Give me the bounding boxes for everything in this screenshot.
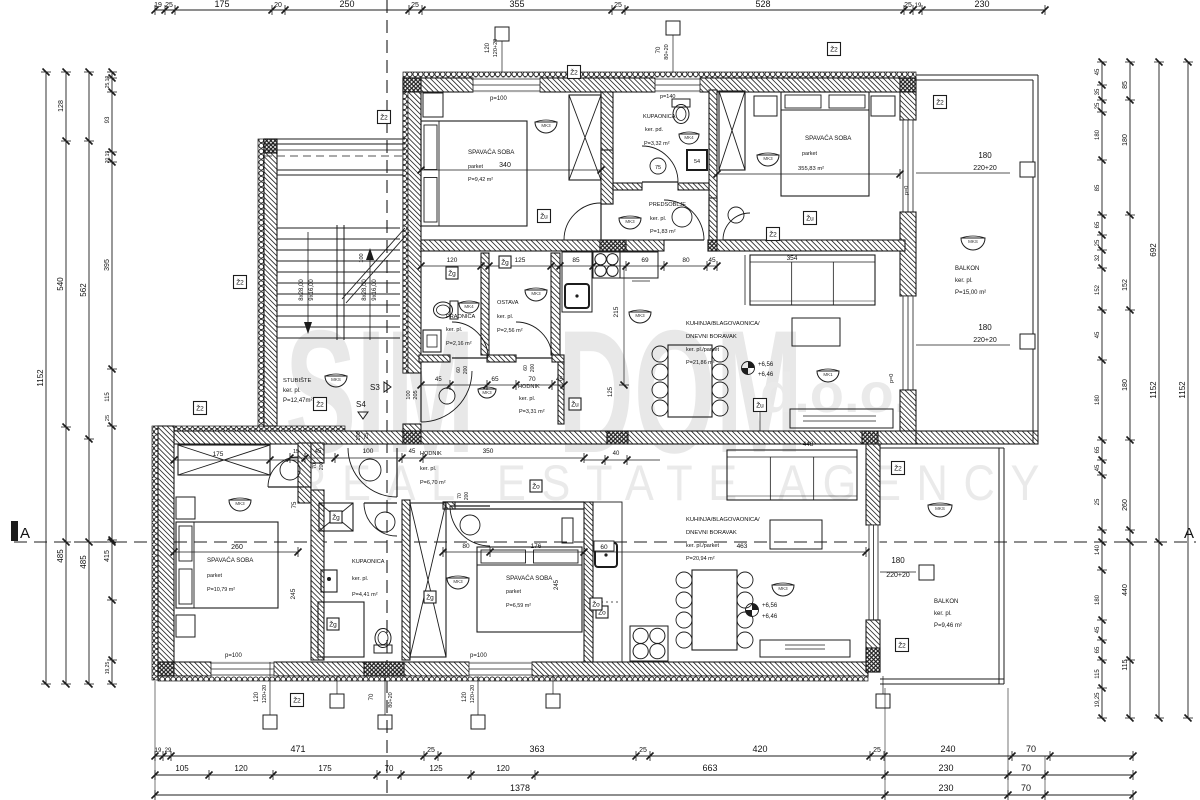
svg-text:180: 180	[891, 556, 905, 565]
svg-text:+6,46: +6,46	[762, 614, 778, 620]
svg-text:45: 45	[1095, 464, 1101, 471]
svg-text:175: 175	[318, 764, 332, 773]
bedroom2 lower: door arc	[450, 506, 490, 546]
svg-text:230: 230	[938, 763, 953, 773]
svg-text:MKS: MKS	[331, 377, 341, 382]
laundry: sink	[459, 303, 479, 313]
svg-text:MK3: MK3	[635, 313, 645, 318]
svg-text:40: 40	[613, 451, 620, 457]
svg-text:120: 120	[485, 42, 491, 53]
dim 40 living lower	[584, 459, 660, 461]
balcony 1 outline	[916, 74, 1038, 76]
boxed label stair west wall	[234, 276, 247, 289]
svg-text:P=20,94 m²: P=20,94 m²	[686, 556, 715, 562]
svg-text:P=10,79 m²: P=10,79 m²	[207, 587, 235, 593]
interior dim 215 vertical	[623, 266, 625, 385]
svg-text:45: 45	[435, 377, 442, 383]
wall: upper unit east	[900, 92, 916, 120]
svg-text:parket: parket	[468, 164, 483, 170]
ostava door arc	[516, 322, 552, 358]
svg-text:45: 45	[556, 377, 563, 383]
bottom marker 3 (door)	[378, 715, 392, 729]
svg-text:180: 180	[1095, 594, 1101, 605]
svg-text:120: 120	[234, 764, 248, 773]
boxed labels lower unit	[590, 598, 602, 610]
ceiling symbol hodnik	[478, 389, 496, 398]
svg-text:115: 115	[1095, 669, 1101, 679]
living room upper: sofa	[750, 255, 875, 305]
svg-text:p=100: p=100	[225, 653, 243, 659]
svg-text:ker. pl.: ker. pl.	[934, 611, 952, 617]
svg-text:45: 45	[708, 257, 716, 264]
bedroom1 dim 260	[174, 551, 298, 553]
bath door arc lower	[364, 503, 397, 536]
laundry room: washer	[423, 330, 441, 352]
svg-text:80+20: 80+20	[664, 44, 670, 59]
svg-text:152: 152	[1122, 279, 1129, 291]
boxed label stair	[314, 398, 327, 411]
svg-text:363: 363	[529, 744, 544, 754]
svg-text:45: 45	[1095, 331, 1101, 338]
svg-text:SPAVAĆA SOBA: SPAVAĆA SOBA	[506, 575, 553, 582]
svg-text:Ž2: Ž2	[293, 696, 301, 705]
outer wall: upper unit top	[403, 72, 916, 78]
svg-text:420: 420	[752, 744, 767, 754]
svg-text:60: 60	[523, 365, 529, 371]
svg-text:245: 245	[290, 588, 297, 599]
svg-text:P=9,46 m²: P=9,46 m²	[934, 623, 962, 629]
bottom marker 5	[546, 694, 560, 708]
svg-text:Ž2: Ž2	[769, 230, 777, 239]
svg-text:P=9,42 m²: P=9,42 m²	[468, 177, 493, 183]
bathroom upper: sink	[679, 134, 699, 144]
svg-text:SPAVAĆA SOBA: SPAVAĆA SOBA	[207, 557, 254, 564]
wall: upper unit west (to stairwell)	[403, 92, 421, 373]
svg-text:230: 230	[938, 783, 953, 793]
stair treads	[277, 227, 400, 229]
svg-text:P=21,86 m²: P=21,86 m²	[686, 360, 715, 366]
svg-text:45: 45	[315, 449, 322, 455]
bathroom upper: toilet	[672, 99, 690, 124]
svg-text:ker. pl.: ker. pl.	[497, 314, 514, 320]
svg-text:125: 125	[515, 257, 526, 264]
bottom extension lines	[154, 681, 156, 798]
svg-text:25: 25	[1095, 498, 1101, 505]
svg-text:75: 75	[292, 501, 298, 508]
svg-text:85: 85	[1122, 81, 1129, 89]
svg-text:415: 415	[104, 550, 111, 562]
interior dim chain lower y=458	[290, 457, 584, 459]
svg-text:100: 100	[406, 390, 412, 399]
bath lower: shower box	[319, 503, 353, 531]
svg-text:355: 355	[509, 0, 524, 9]
svg-text:Žg: Žg	[426, 593, 434, 602]
svg-text:p=0: p=0	[904, 186, 910, 195]
svg-text:P=15,00 m²: P=15,00 m²	[955, 290, 986, 296]
svg-text:70: 70	[1026, 744, 1036, 754]
bottom dimension chains	[155, 755, 1133, 757]
svg-text:35: 35	[1095, 88, 1101, 95]
svg-text:448: 448	[803, 441, 814, 448]
svg-text:692: 692	[1149, 243, 1158, 257]
outer wall: lower unit west	[152, 426, 158, 680]
svg-text:340: 340	[499, 162, 511, 169]
svg-text:MK3: MK3	[625, 219, 635, 224]
svg-text:Žg: Žg	[448, 269, 456, 278]
svg-text:Ž2: Ž2	[936, 98, 944, 107]
window E1 east	[902, 120, 915, 212]
svg-text:Ž2: Ž2	[894, 464, 902, 473]
window bottom bedroom2	[469, 662, 532, 677]
living lower: coffee table	[770, 520, 822, 549]
svg-text:200: 200	[530, 364, 536, 373]
svg-text:25: 25	[364, 433, 370, 439]
svg-text:P=6,59 m²: P=6,59 m²	[506, 603, 531, 609]
svg-text:100: 100	[356, 431, 362, 440]
stair break diagonal	[342, 228, 405, 299]
svg-text:120: 120	[496, 764, 510, 773]
bottom marker 2	[330, 694, 344, 708]
wardrobe lower center	[410, 503, 446, 657]
svg-text:20: 20	[274, 2, 282, 9]
interior wall: hodnik/kitchen vertical	[558, 362, 564, 424]
boxed labels balcony2	[892, 462, 905, 475]
door arcs at living room entry	[664, 200, 704, 240]
svg-text:8x28,00: 8x28,00	[362, 279, 368, 301]
stair direction arrow right	[369, 252, 371, 340]
svg-text:45: 45	[409, 449, 416, 455]
svg-text:45: 45	[1095, 68, 1101, 75]
living lower: dining table	[692, 570, 737, 650]
svg-text:85: 85	[572, 257, 580, 264]
wall: upper unit west below entry door	[403, 424, 421, 440]
interior wall: wc top	[311, 443, 324, 463]
svg-text:STUBIŠTE: STUBIŠTE	[283, 377, 311, 384]
svg-text:215: 215	[613, 306, 620, 317]
svg-text:MK3: MK3	[453, 579, 463, 584]
svg-text:P=2,16 m²: P=2,16 m²	[446, 341, 472, 347]
svg-text:ker. pl.: ker. pl.	[955, 278, 973, 284]
outer wall: lower unit east	[866, 444, 880, 525]
svg-text:350: 350	[483, 448, 494, 455]
bathroom door arc	[642, 146, 678, 182]
boxed label bottom wall	[291, 694, 304, 707]
svg-text:25: 25	[1095, 102, 1101, 109]
interior wall: hodnik horizontal	[419, 355, 450, 362]
dashed section line vertical	[386, 0, 388, 800]
svg-text:65: 65	[1095, 446, 1101, 453]
svg-text:Ž2: Ž2	[380, 113, 388, 122]
bathroom upper: shower	[687, 150, 707, 170]
svg-text:25: 25	[411, 2, 419, 9]
svg-text:19: 19	[915, 3, 922, 9]
bottom marker 6	[876, 694, 890, 708]
balcony 2 outline	[880, 447, 1004, 449]
svg-text:70: 70	[457, 493, 463, 499]
svg-text:70: 70	[385, 764, 394, 773]
bedroom 1 dim 340	[421, 169, 601, 171]
bath lower: toilet	[374, 629, 392, 654]
svg-text:60: 60	[600, 544, 608, 551]
bedroom2 dim	[443, 551, 584, 553]
bedroom1 lower: wardrobe	[178, 445, 270, 475]
svg-text:120+20: 120+20	[262, 685, 268, 704]
interior wall: bedrooms/living separation y=240	[421, 240, 664, 251]
corner block top-left	[403, 78, 421, 92]
svg-text:485: 485	[56, 549, 65, 563]
upper unit entry door arc	[421, 371, 472, 422]
window east lower	[868, 525, 880, 620]
svg-text:245: 245	[554, 579, 560, 590]
top dimension chain	[155, 9, 1045, 11]
svg-text:355,83 m²: 355,83 m²	[798, 166, 824, 172]
svg-text:KUPAONICA: KUPAONICA	[352, 559, 385, 565]
svg-text:32: 32	[1095, 254, 1101, 261]
svg-text:MK4: MK4	[464, 304, 474, 309]
svg-text:ker. pl.: ker. pl.	[283, 388, 301, 394]
interior dim chain hodnik y=385	[421, 384, 564, 386]
svg-text:Ž2: Ž2	[830, 45, 838, 54]
interior wall: bedroom2/kitchen vertical	[584, 502, 593, 662]
svg-text:25: 25	[614, 2, 622, 9]
svg-text:KUHINJA/BLAGOVAONICA/: KUHINJA/BLAGOVAONICA/	[686, 321, 760, 327]
right dimension chains	[1101, 62, 1103, 718]
level marker lower	[746, 604, 759, 617]
living lower: tv bench	[760, 640, 850, 657]
window W2 top (bathroom)	[655, 78, 700, 93]
wardrobe bedroom1 upper	[569, 95, 601, 180]
svg-text:54: 54	[694, 159, 700, 165]
window marker 1 top	[495, 27, 509, 41]
svg-text:220+20: 220+20	[886, 572, 910, 579]
svg-text:180: 180	[1095, 129, 1101, 140]
svg-text:200: 200	[464, 492, 470, 501]
svg-text:SPAVAĆA SOBA: SPAVAĆA SOBA	[805, 135, 852, 142]
svg-text:+6,56: +6,56	[762, 603, 778, 609]
svg-text:65: 65	[1095, 646, 1101, 653]
living room upper: coffee table	[792, 318, 840, 346]
wall band under balcony 1	[878, 431, 916, 444]
svg-text:d.o.o.: d.o.o.	[760, 361, 909, 424]
svg-text:120+20: 120+20	[470, 685, 476, 704]
bedroom 2 dim 355	[717, 173, 900, 175]
svg-text:P=1,83 m²: P=1,83 m²	[650, 229, 676, 235]
svg-text:Ž2: Ž2	[196, 404, 204, 413]
svg-text:MK4: MK4	[684, 135, 694, 140]
svg-text:120: 120	[447, 257, 458, 264]
svg-text:1152: 1152	[1178, 381, 1187, 399]
svg-text:Ž2: Ž2	[316, 400, 324, 409]
svg-text:Žo: Žo	[532, 482, 540, 491]
svg-text:MK3: MK3	[778, 586, 788, 591]
stairwell west wall	[258, 139, 264, 426]
svg-text:MKS: MKS	[935, 506, 945, 511]
svg-text:65: 65	[1095, 221, 1101, 228]
svg-text:P=3,31 m²: P=3,31 m²	[519, 409, 545, 415]
svg-text:ker. pd.: ker. pd.	[645, 127, 664, 133]
svg-text:70: 70	[656, 46, 662, 53]
window label east 2	[916, 344, 1010, 346]
svg-text:175: 175	[214, 0, 229, 9]
svg-text:p=0: p=0	[889, 374, 895, 383]
boxed label above lower wall	[194, 402, 207, 415]
svg-text:parket: parket	[506, 589, 521, 595]
kitchen lower: stove	[630, 626, 668, 661]
svg-text:80: 80	[462, 543, 470, 550]
svg-text:180: 180	[978, 151, 992, 160]
ceiling symbol stairwell	[325, 376, 347, 387]
svg-text:Ž2: Ž2	[898, 641, 906, 650]
svg-text:MK3: MK3	[763, 156, 773, 161]
interior wall: bath partition	[601, 150, 613, 204]
svg-text:260: 260	[231, 544, 243, 551]
window W1 top (bedroom 1)	[473, 78, 540, 93]
outer wall: long middle band	[155, 426, 345, 431]
svg-text:ker. pl.: ker. pl.	[352, 576, 369, 582]
svg-text:75: 75	[655, 165, 661, 171]
interior wall: laundry/ostava vertical 1	[481, 253, 489, 355]
svg-text:260: 260	[1122, 499, 1129, 511]
wall: east segment 2	[900, 212, 916, 296]
interior wall: bedroom2 top	[443, 501, 584, 503]
corner block top-right east	[900, 78, 916, 92]
svg-text:19: 19	[155, 748, 162, 754]
svg-text:663: 663	[702, 763, 717, 773]
svg-text:P=6,70 m²: P=6,70 m²	[420, 480, 446, 486]
svg-text:25: 25	[873, 747, 881, 754]
svg-text:250: 250	[339, 0, 354, 9]
svg-text:ker. pl.: ker. pl.	[420, 466, 437, 472]
svg-text:KUHINJA/BLAGOVAONICA/: KUHINJA/BLAGOVAONICA/	[686, 517, 760, 523]
living lower: sofa	[727, 450, 857, 500]
window marker 2 top	[666, 21, 680, 35]
svg-text:15: 15	[293, 449, 299, 455]
svg-text:485: 485	[79, 555, 88, 569]
svg-text:85: 85	[1095, 184, 1101, 191]
svg-text:471: 471	[290, 744, 305, 754]
svg-text:A: A	[1184, 525, 1194, 542]
interior wall: ostava/kitchen vertical	[551, 253, 560, 355]
interior dim chain upper y=266	[421, 265, 717, 267]
bedroom 2 upper: nightstands + bed	[754, 96, 777, 116]
kitchen upper: stove	[593, 252, 620, 278]
bedroom1 lower: nightstands	[176, 497, 195, 519]
laundry door arc	[452, 322, 488, 358]
svg-text:parket: parket	[207, 573, 222, 579]
svg-text:Žu: Žu	[756, 401, 764, 410]
svg-text:MK3: MK3	[531, 291, 541, 296]
bedroom 1 upper: column box	[423, 93, 443, 117]
window E2 east	[902, 296, 915, 390]
svg-text:Žg: Žg	[329, 620, 337, 629]
svg-text:BALKON: BALKON	[955, 266, 979, 272]
svg-text:100: 100	[363, 448, 374, 455]
interior wall: bath east vertical	[402, 500, 410, 660]
svg-text:OSTAVA: OSTAVA	[497, 300, 519, 306]
svg-text:P=2,56 m²: P=2,56 m²	[497, 328, 523, 334]
kitchen counter edge	[591, 252, 593, 312]
svg-text:9x16,00: 9x16,00	[309, 279, 315, 301]
stair direction arrow left	[307, 232, 309, 330]
interior wall: bedroom1/bath vertical	[601, 92, 613, 204]
svg-text:200: 200	[463, 366, 469, 375]
window label east 1	[916, 172, 1010, 174]
svg-text:220+20: 220+20	[973, 165, 997, 172]
svg-text:69: 69	[641, 257, 649, 264]
wardrobe bedroom2 upper	[719, 91, 745, 170]
svg-text:ker. pl.: ker. pl.	[446, 327, 463, 333]
svg-text:MKS: MKS	[968, 239, 978, 244]
svg-text:p=100: p=100	[470, 653, 488, 659]
svg-text:45: 45	[1095, 626, 1101, 633]
left dimension chains	[45, 72, 47, 684]
svg-text:+6,46: +6,46	[758, 372, 774, 378]
svg-text:93: 93	[105, 116, 111, 123]
svg-text:230: 230	[974, 0, 989, 9]
svg-text:105: 105	[175, 764, 189, 773]
svg-text:200: 200	[319, 462, 325, 471]
kitchen upper: counter + sink	[562, 252, 592, 312]
svg-text:SPAVAĆA SOBA: SPAVAĆA SOBA	[468, 149, 515, 156]
svg-text:P=4,41 m²: P=4,41 m²	[352, 592, 378, 598]
svg-text:1378: 1378	[510, 783, 530, 793]
svg-text:152: 152	[1095, 284, 1101, 295]
laundry: toilet	[434, 301, 459, 319]
svg-text:ker. pl.: ker. pl.	[519, 396, 536, 402]
dashed section line A-A horizontal	[14, 541, 1196, 543]
stair landing beam lines	[277, 169, 403, 171]
svg-text:MK1: MK1	[823, 372, 833, 377]
svg-text:Žu: Žu	[540, 212, 548, 221]
svg-text:S3: S3	[370, 383, 380, 392]
svg-text:19,25: 19,25	[1095, 692, 1101, 708]
svg-text:175: 175	[213, 451, 224, 458]
window label east lower	[880, 571, 916, 573]
interior dim chain y=552 right	[593, 551, 866, 553]
svg-text:25: 25	[1095, 239, 1101, 246]
svg-text:120: 120	[462, 691, 468, 702]
svg-text:540: 540	[56, 277, 65, 291]
entry door arc lower unit	[348, 448, 397, 497]
svg-text:25: 25	[165, 2, 173, 9]
svg-text:BALKON: BALKON	[934, 599, 958, 605]
svg-text:70: 70	[312, 463, 318, 469]
svg-text:DNEVNI BORAVAK: DNEVNI BORAVAK	[686, 530, 737, 536]
svg-text:70: 70	[369, 693, 375, 700]
window bottom bedroom1	[211, 662, 274, 677]
svg-text:140: 140	[1095, 544, 1101, 555]
living room upper: tv bench	[790, 409, 893, 428]
bath lower: tub	[318, 602, 364, 657]
svg-text:Ž2: Ž2	[570, 68, 578, 77]
svg-text:180: 180	[1122, 379, 1129, 391]
svg-text:S4: S4	[356, 400, 366, 409]
svg-text:DNEVNI BORAVAK: DNEVNI BORAVAK	[686, 334, 737, 340]
bath/predsoblje partition wall	[613, 183, 642, 190]
svg-text:9x16,00: 9x16,00	[372, 279, 378, 301]
svg-text:20,19: 20,19	[105, 151, 111, 164]
svg-text:120+20: 120+20	[493, 39, 499, 58]
svg-text:205: 205	[413, 390, 419, 399]
svg-text:+6,56: +6,56	[758, 362, 774, 368]
level marker upper	[742, 362, 755, 375]
wall: east segment 3	[900, 390, 916, 431]
bedroom1 lower: bed	[176, 522, 278, 608]
interior wall: bath/bedroom2 vertical	[709, 90, 717, 240]
section marker A left	[11, 521, 18, 541]
svg-text:463: 463	[737, 543, 748, 550]
outer wall: lower unit bottom	[158, 662, 868, 676]
